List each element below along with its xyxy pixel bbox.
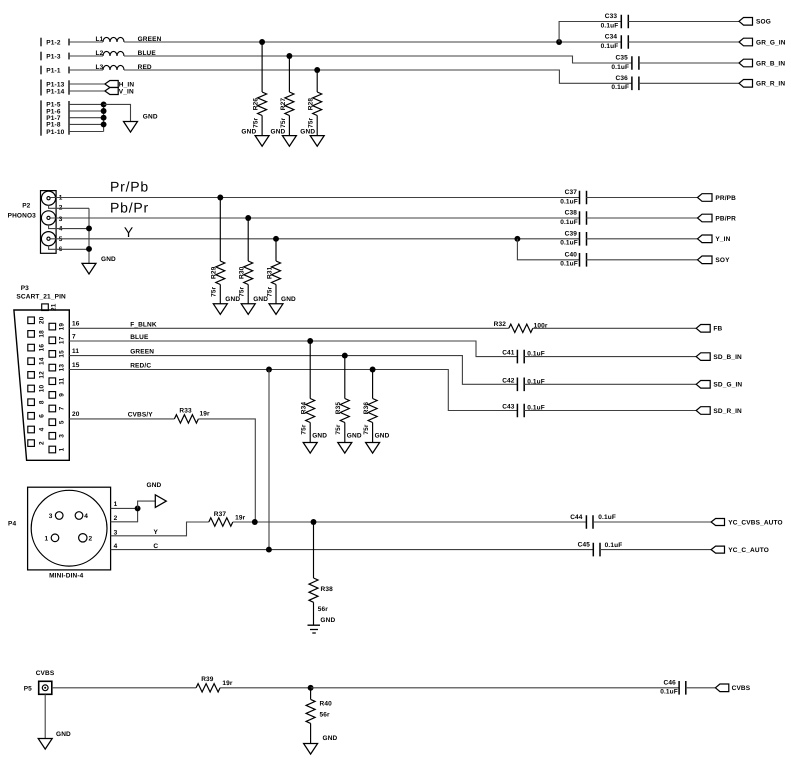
svg-text:GREEN: GREEN [130, 348, 154, 355]
wire C34 to GR_G_IN port [628, 41, 739, 43]
svg-text:C33: C33 [605, 13, 618, 20]
connector pin P1-2 [40, 38, 42, 47]
svg-text:P1-1: P1-1 [46, 67, 61, 74]
svg-text:P1-2: P1-2 [46, 39, 61, 46]
wire P1-8 [69, 123, 104, 125]
connector P3 pin 4 square [28, 426, 35, 433]
junction ground bus y=124.4 [101, 121, 107, 127]
svg-text:4: 4 [84, 513, 88, 520]
svg-text:SCART_21_PIN: SCART_21_PIN [16, 294, 66, 301]
svg-text:GND: GND [271, 129, 286, 136]
svg-text:C38: C38 [565, 210, 578, 217]
svg-text:SOY: SOY [715, 257, 730, 264]
connector P3 pin 14 square [28, 358, 35, 365]
svg-text:PB/PR: PB/PR [715, 215, 736, 222]
port SOG [739, 18, 753, 26]
svg-text:C45: C45 [578, 542, 591, 549]
connector P3 pin 13 square [49, 364, 56, 371]
port PR/PB [698, 194, 713, 202]
wire P1-3 to L2 [69, 55, 103, 57]
svg-text:R34: R34 [301, 402, 308, 415]
wire C36 to GR_R_IN port [639, 82, 739, 84]
svg-text:C35: C35 [616, 55, 629, 62]
svg-text:FB: FB [713, 326, 722, 333]
resistor R33 [174, 415, 198, 423]
svg-text:R39: R39 [201, 676, 214, 683]
wire P1-1 to L3 [69, 69, 103, 71]
port FB [696, 325, 710, 333]
svg-text:0.1uF: 0.1uF [611, 84, 629, 91]
svg-text:6: 6 [38, 414, 45, 418]
svg-text:SD_G_IN: SD_G_IN [713, 382, 742, 389]
svg-text:GND: GND [323, 735, 338, 742]
wire P2 pin6 to ground bus [49, 246, 89, 250]
wire RED/C to C line link [268, 370, 270, 550]
wire P2 pin4 to ground bus [49, 225, 89, 229]
junction R26/GREEN [259, 39, 265, 45]
wire C42 to SD_G_IN port [524, 383, 696, 385]
ground P2 [82, 263, 96, 274]
svg-text:GND: GND [347, 433, 362, 440]
wire SOG branch [559, 22, 621, 43]
svg-text:C42: C42 [502, 377, 515, 384]
capacitor C39 [580, 232, 587, 246]
port YC_C_AUTO [711, 546, 724, 553]
wire P1-14 to V_IN [69, 90, 105, 92]
svg-text:GND: GND [56, 731, 71, 738]
svg-text:C36: C36 [616, 75, 629, 82]
junction SOY branch [514, 236, 520, 242]
wire C line [111, 549, 594, 551]
svg-text:GND: GND [281, 296, 296, 303]
wire P2 ground bus [88, 208, 90, 263]
wire net GREEN [124, 41, 621, 43]
junction P4 pins 1-2 [135, 505, 141, 511]
svg-text:PR/PB: PR/PB [715, 195, 736, 202]
junction R36 [370, 367, 376, 373]
wire C41 to SD_B_IN port [524, 356, 696, 358]
svg-text:3: 3 [59, 216, 63, 223]
inductor L2 [103, 51, 124, 56]
connector P4 MINI-DIN-4 body [28, 487, 111, 570]
connector P3 pin 21 square [42, 304, 49, 311]
svg-text:Pr/Pb: Pr/Pb [110, 178, 149, 194]
resistor R38 [313, 522, 315, 578]
svg-text:56r: 56r [318, 606, 329, 613]
svg-text:P1-10: P1-10 [46, 129, 64, 136]
svg-text:4: 4 [38, 427, 45, 431]
resistor R37 [209, 518, 233, 526]
capacitor C35 [632, 56, 639, 70]
svg-text:20: 20 [38, 316, 45, 324]
ground R31 [269, 304, 283, 315]
wire P2 pin2 to ground bus [49, 205, 89, 208]
resistor R35 [344, 356, 346, 399]
wire Pb/Pr [50, 217, 579, 219]
svg-text:Pb/Pr: Pb/Pr [110, 200, 149, 216]
wire P5 to R39 [52, 687, 196, 689]
resistor R28 [316, 70, 318, 92]
ground R29 [213, 304, 227, 315]
svg-text:0.1uF: 0.1uF [605, 542, 623, 549]
svg-text:BLUE: BLUE [130, 334, 149, 341]
svg-text:R29: R29 [211, 266, 218, 279]
port SOY [698, 256, 713, 264]
wire P5 to ground [44, 694, 46, 738]
capacitor C46 [679, 681, 686, 695]
svg-text:GND: GND [147, 482, 162, 489]
svg-text:R26: R26 [253, 98, 260, 111]
junction R29 [217, 195, 223, 201]
wire BLUE scart [69, 341, 517, 357]
port SD_G_IN [696, 381, 710, 389]
wire pins12 to GND arrow [138, 501, 156, 508]
svg-text:9: 9 [58, 393, 65, 397]
svg-text:7: 7 [72, 333, 76, 340]
svg-text:2: 2 [89, 535, 93, 542]
resistor R40 [310, 688, 312, 700]
connector P3 pin 19 square [49, 323, 56, 330]
svg-text:Y: Y [154, 529, 159, 536]
wire junction to C46 [311, 687, 679, 689]
svg-text:12: 12 [38, 371, 45, 379]
wire C43 to SD_R_IN port [524, 410, 696, 412]
junction R28/RED [314, 67, 320, 73]
svg-text:GND: GND [312, 433, 327, 440]
connector P3 pin 6 square [28, 413, 35, 420]
svg-text:Y: Y [124, 224, 134, 240]
svg-text:R30: R30 [239, 266, 246, 279]
junction R27/BLUE [286, 53, 292, 59]
svg-text:P1-3: P1-3 [46, 53, 61, 60]
connector P3 pin 12 square [28, 372, 35, 379]
wire SOY branch [517, 239, 579, 260]
svg-text:C40: C40 [565, 252, 578, 259]
connector P3 pin 16 square [28, 344, 35, 351]
inductor L1 [103, 37, 124, 42]
resistor R27 [288, 56, 290, 92]
wire P1-2 to L1 [69, 41, 103, 43]
svg-text:GR_B_IN: GR_B_IN [756, 60, 785, 67]
connector P3 SCART body [14, 310, 69, 460]
junction R30 [245, 215, 251, 221]
wire P1-10 [69, 131, 104, 133]
ground R40 [304, 744, 318, 755]
svg-text:R32: R32 [494, 321, 507, 328]
wire GREEN scart [69, 356, 517, 385]
svg-text:P2: P2 [22, 203, 30, 210]
svg-text:19r: 19r [200, 410, 211, 417]
svg-text:P4: P4 [8, 521, 16, 528]
svg-text:1: 1 [114, 501, 118, 508]
svg-text:16: 16 [38, 344, 45, 352]
svg-text:P1-14: P1-14 [46, 88, 64, 95]
svg-text:8: 8 [38, 400, 45, 404]
svg-text:75r: 75r [239, 286, 246, 297]
wire P1-6 [69, 110, 104, 112]
wire P1-13 to H_IN [69, 83, 105, 85]
svg-text:V_IN: V_IN [119, 88, 134, 95]
connector P3 pin 11 square [49, 378, 56, 385]
wire RED/C [69, 370, 517, 411]
svg-text:1: 1 [58, 447, 65, 451]
connector P3 pin 10 square [28, 385, 35, 392]
svg-text:0.1uF: 0.1uF [560, 261, 578, 268]
svg-text:11: 11 [72, 348, 79, 355]
svg-text:L3: L3 [96, 64, 104, 71]
connector P3 pin 17 square [49, 337, 56, 344]
svg-text:R35: R35 [335, 402, 342, 415]
svg-text:19: 19 [58, 323, 65, 331]
svg-text:P1-8: P1-8 [46, 122, 61, 129]
svg-text:L1: L1 [96, 36, 104, 43]
capacitor C38 [580, 211, 587, 225]
port YC_CVBS_AUTO [711, 519, 724, 526]
svg-text:75r: 75r [335, 424, 342, 435]
connector P3 pin 20 square [28, 317, 35, 324]
svg-text:R37: R37 [214, 511, 227, 518]
svg-text:20: 20 [72, 411, 80, 418]
svg-text:RED/C: RED/C [130, 362, 151, 369]
ground R34 [303, 443, 317, 454]
connector P3 pin 7 square [49, 405, 56, 412]
svg-text:R33: R33 [179, 407, 192, 414]
junction SOG branch [556, 39, 562, 45]
P4 pin 1 circle [51, 534, 59, 542]
connector P3 pin 8 square [28, 399, 35, 406]
svg-text:75r: 75r [253, 117, 260, 128]
connector P3 pin 2 square [28, 440, 35, 447]
svg-text:SD_B_IN: SD_B_IN [713, 354, 742, 361]
svg-text:GND: GND [241, 129, 256, 136]
svg-text:15: 15 [72, 362, 80, 369]
svg-text:10: 10 [38, 385, 45, 393]
svg-text:H_IN: H_IN [119, 81, 135, 88]
junction C line link [266, 547, 272, 553]
svg-text:18: 18 [38, 330, 45, 338]
svg-text:F_BLNK: F_BLNK [130, 321, 157, 328]
capacitor C36 [632, 77, 639, 91]
junction R38 [311, 519, 317, 525]
port SD_R_IN [696, 407, 710, 415]
svg-text:P3: P3 [21, 285, 29, 292]
connector P3 pin 1 square [49, 446, 56, 453]
svg-text:R38: R38 [321, 586, 334, 593]
ground R38 (earth) [308, 625, 321, 633]
svg-text:3: 3 [58, 434, 65, 438]
junction R40 [308, 685, 314, 691]
capacitor C40 [580, 253, 587, 267]
ground P1 group [124, 122, 138, 133]
svg-text:GND: GND [300, 129, 315, 136]
wire P1-5 [69, 103, 104, 105]
svg-text:R31: R31 [266, 266, 273, 279]
svg-text:C46: C46 [664, 680, 677, 687]
svg-text:14: 14 [38, 357, 45, 365]
resistor R39 [196, 684, 220, 692]
svg-text:0.1uF: 0.1uF [560, 219, 578, 226]
svg-text:C34: C34 [605, 34, 618, 41]
resistor R36 [372, 370, 374, 399]
port V_IN [105, 88, 118, 95]
svg-text:Y_IN: Y_IN [715, 236, 730, 243]
wire F_BLNK [69, 327, 509, 329]
wire ground bus to GND [104, 104, 131, 121]
wire P4 pin1 [111, 507, 138, 509]
wire CVBS/Y to R33 [69, 418, 174, 420]
svg-text:5: 5 [58, 420, 65, 424]
ground R26 [255, 136, 269, 147]
svg-text:15: 15 [58, 350, 65, 358]
ground P5 [38, 739, 52, 750]
svg-text:0.1uF: 0.1uF [601, 23, 619, 30]
ground R27 [282, 136, 296, 147]
capacitor C41 [517, 350, 524, 364]
svg-text:5: 5 [59, 236, 63, 243]
junction ground bus y=104.4 [101, 101, 107, 107]
svg-text:75r: 75r [308, 117, 315, 128]
wire C37 to PR/PB port [586, 197, 697, 199]
wire C46 to CVBS port [686, 687, 716, 689]
svg-text:75r: 75r [363, 424, 370, 435]
svg-text:11: 11 [58, 377, 65, 384]
port GR_G_IN [739, 38, 753, 46]
ground R30 [241, 304, 255, 315]
svg-text:75r: 75r [280, 117, 287, 128]
ground R35 [338, 443, 352, 454]
svg-text:GND: GND [375, 433, 390, 440]
svg-text:CVBS: CVBS [732, 685, 751, 692]
capacitor C44 [586, 515, 593, 529]
svg-text:2: 2 [38, 441, 45, 445]
svg-text:16: 16 [72, 321, 80, 328]
wire Y line [233, 521, 587, 523]
connector P3 pin 3 square [49, 433, 56, 440]
svg-text:56r: 56r [320, 712, 331, 719]
svg-text:R40: R40 [320, 701, 333, 708]
junction R35 [342, 353, 348, 359]
wire C38 to PB/PR port [586, 217, 697, 219]
wire P4 pin3 to R37 [111, 522, 209, 536]
svg-text:GND: GND [143, 114, 158, 121]
port H_IN [105, 81, 118, 88]
svg-text:19r: 19r [235, 515, 246, 522]
port Y_IN [698, 235, 713, 243]
svg-text:3: 3 [49, 513, 53, 520]
svg-text:R27: R27 [280, 98, 287, 111]
svg-text:L2: L2 [96, 50, 104, 57]
svg-text:7: 7 [58, 406, 65, 410]
inductor L3 [103, 65, 124, 70]
svg-text:SOG: SOG [756, 19, 771, 26]
resistor R34 [309, 341, 311, 399]
svg-text:PHONO3: PHONO3 [8, 213, 37, 220]
junction ground bus y=111.0 [101, 108, 107, 114]
resistor R30 [247, 218, 249, 261]
connector P3 pin 9 square [49, 392, 56, 399]
connector pin P1-3 [40, 52, 42, 61]
wire P4 pin2 [111, 508, 138, 521]
svg-text:17: 17 [58, 336, 65, 344]
connector pins P1-5..P1-10 bar [40, 100, 42, 135]
capacitor C33 [621, 15, 628, 29]
svg-text:0.1uF: 0.1uF [598, 514, 616, 521]
resistor R31 [275, 239, 277, 261]
svg-text:R36: R36 [363, 402, 370, 415]
connector P1-5..P1-10 pin bar [68, 101, 70, 135]
junction P2 pin6 [86, 246, 92, 252]
svg-text:0.1uF: 0.1uF [560, 198, 578, 205]
junction P2 pin4 [86, 225, 92, 231]
wire Pr/Pb [50, 197, 579, 199]
capacitor C34 [621, 35, 628, 49]
wire C44 to YC_CVBS_AUTO port [593, 521, 711, 523]
svg-text:CVBS: CVBS [36, 670, 55, 677]
svg-text:P1-13: P1-13 [46, 81, 64, 88]
svg-text:YC_C_AUTO: YC_C_AUTO [728, 547, 769, 554]
P4 pin 4 circle [75, 512, 83, 520]
P4 pin 3 circle [55, 512, 63, 520]
svg-text:2: 2 [114, 515, 118, 522]
connector P2 PHONO3 body [41, 191, 57, 254]
svg-text:GND: GND [101, 256, 116, 263]
svg-text:YC_CVBS_AUTO: YC_CVBS_AUTO [728, 519, 782, 526]
resistor R32 [509, 324, 533, 332]
svg-text:75r: 75r [266, 286, 273, 297]
junction R31 [273, 236, 279, 242]
connector P3 pin 18 square [28, 331, 35, 338]
wire C35 to GR_B_IN port [639, 62, 739, 64]
svg-text:C44: C44 [570, 514, 583, 521]
svg-text:R28: R28 [308, 98, 315, 111]
svg-text:1: 1 [45, 535, 49, 542]
svg-text:C43: C43 [502, 404, 515, 411]
wire P1-7 [69, 117, 104, 119]
junction R34 [307, 338, 313, 344]
junction RED/C to C link [266, 367, 272, 373]
wire C40 to SOY port [586, 259, 697, 261]
port SD_B_IN [696, 353, 710, 361]
svg-text:13: 13 [58, 364, 65, 372]
port PB/PR [698, 214, 713, 222]
resistor R26 [261, 42, 263, 92]
svg-text:C41: C41 [502, 350, 515, 357]
svg-text:GR_R_IN: GR_R_IN [756, 81, 785, 88]
connector P5 jack [39, 681, 52, 694]
port GR_R_IN [739, 80, 753, 88]
wire C45 to YC_C_AUTO port [600, 549, 711, 551]
wire R33 to Y line [198, 419, 255, 522]
svg-text:C39: C39 [565, 231, 578, 238]
svg-text:GR_G_IN: GR_G_IN [756, 39, 786, 46]
port GR_B_IN [739, 59, 753, 67]
ground P4 (right arrow) [155, 495, 166, 508]
svg-text:MINI-DIN-4: MINI-DIN-4 [49, 573, 84, 580]
svg-text:SD_R_IN: SD_R_IN [713, 408, 742, 415]
ground R36 [366, 443, 380, 454]
capacitor C37 [580, 191, 587, 205]
svg-text:P5: P5 [24, 685, 32, 692]
wire net BLUE [124, 56, 632, 63]
svg-text:GND: GND [320, 617, 335, 624]
ground R28 [310, 136, 324, 147]
resistor R29 [219, 198, 221, 262]
wire C33 to SOG port [628, 21, 739, 23]
svg-text:CVBS/Y: CVBS/Y [128, 412, 154, 419]
svg-text:0.1uF: 0.1uF [611, 64, 629, 71]
junction CVBS/Y drop [252, 519, 258, 525]
svg-text:19r: 19r [222, 680, 233, 687]
